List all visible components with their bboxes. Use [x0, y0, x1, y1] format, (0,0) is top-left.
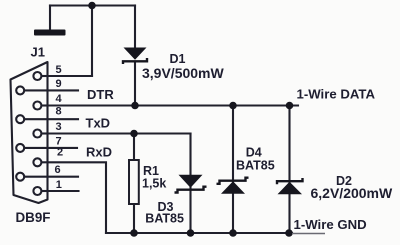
zener D1 — [123, 48, 147, 65]
wire pin5 row — [48, 75, 92, 77]
svg-text:3: 3 — [56, 121, 62, 133]
svg-text:7: 7 — [56, 135, 62, 147]
svg-text:9: 9 — [56, 78, 62, 90]
diode D4 — [217, 178, 249, 194]
wire D1 bottom — [134, 62, 136, 106]
svg-text:D4: D4 — [246, 145, 262, 159]
wire D4 branch — [232, 106, 234, 234]
node D4-DATA — [229, 102, 237, 110]
pin circle 1 — [33, 187, 41, 195]
resistor R1 — [129, 160, 139, 204]
wire D2 branch — [288, 106, 290, 234]
svg-text:BAT85: BAT85 — [236, 158, 275, 172]
wire shield drop — [49, 6, 51, 31]
pin circle 5 — [33, 72, 41, 80]
svg-text:D1: D1 — [170, 52, 186, 66]
svg-text:8: 8 — [56, 106, 62, 118]
node D2-DATA — [286, 102, 294, 110]
svg-text:4: 4 — [56, 93, 63, 105]
node D2-GND — [285, 229, 293, 237]
wire D1 top — [134, 6, 136, 49]
wire TxD row — [48, 132, 191, 134]
node D3-GND — [187, 229, 195, 237]
wire DATA row — [48, 104, 298, 106]
node D4-GND — [229, 229, 237, 237]
wire GND faded tail — [292, 233, 325, 235]
pin stub 7 — [48, 147, 77, 149]
svg-text:2: 2 — [57, 147, 63, 159]
pin circle 3 — [33, 130, 41, 138]
wire RxD row — [48, 162, 106, 233]
pin stub 8 — [48, 118, 78, 120]
pin circle 2 — [33, 158, 41, 166]
connector J1 DB9F outline — [11, 62, 48, 203]
wire D3 branch — [189, 134, 191, 234]
wire pin5 riser — [91, 6, 93, 77]
pin circle 9 — [16, 86, 24, 94]
svg-text:6,2V/200mW: 6,2V/200mW — [311, 185, 393, 201]
svg-text:1-Wire GND: 1-Wire GND — [294, 217, 367, 232]
pin stub 6 — [48, 176, 78, 178]
pin circle 4 — [33, 102, 41, 110]
svg-text:J1: J1 — [31, 45, 45, 60]
shield bar — [34, 30, 66, 36]
svg-text:DB9F: DB9F — [16, 210, 51, 225]
svg-text:1,5k: 1,5k — [142, 177, 166, 191]
pin circle 6 — [16, 173, 24, 181]
svg-text:TxD: TxD — [86, 116, 111, 131]
svg-text:1-Wire DATA: 1-Wire DATA — [297, 87, 376, 102]
pin stub 1 — [48, 190, 79, 192]
node D1-DATA — [131, 102, 139, 110]
zener D2 — [277, 178, 303, 194]
node top junction — [88, 2, 96, 10]
wire GND row — [106, 232, 292, 234]
node R1-TxD — [130, 130, 138, 138]
pin circle 8 — [16, 115, 24, 123]
svg-text:DTR: DTR — [87, 87, 114, 102]
svg-text:RxD: RxD — [86, 144, 112, 159]
pin circle 7 — [16, 144, 24, 152]
node R1-GND — [130, 229, 138, 237]
diode D3 — [175, 175, 207, 193]
svg-text:3,9V/500mW: 3,9V/500mW — [142, 65, 224, 81]
svg-text:1: 1 — [56, 179, 62, 191]
wire top rail — [50, 4, 135, 6]
svg-text:5: 5 — [56, 64, 62, 76]
svg-text:6: 6 — [55, 164, 61, 176]
wire R1 branch — [133, 134, 135, 234]
svg-text:BAT85: BAT85 — [145, 211, 184, 225]
pin stub 9 — [48, 89, 78, 91]
